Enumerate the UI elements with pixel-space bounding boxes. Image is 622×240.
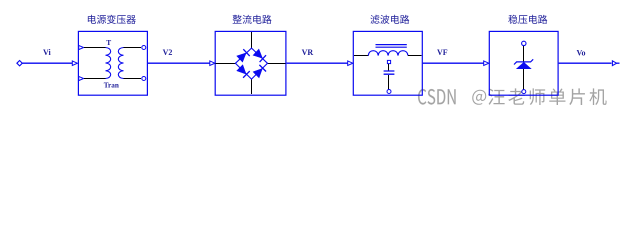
diode D1 top-left (236, 49, 249, 62)
watermark CSDN (418, 88, 607, 105)
pin arrow into transformer (72, 61, 77, 66)
transformer T box (78, 31, 147, 95)
zener bottom pin circle (522, 90, 526, 94)
transformer pin marker top-right (142, 46, 146, 50)
capacitor bottom lead (388, 75, 390, 90)
zener top lead (523, 46, 525, 62)
transformer pin stub top-left (84, 47, 106, 49)
inductor core line 2 (376, 46, 407, 48)
inductor stub left (354, 55, 369, 57)
node Vi input terminal (17, 61, 22, 66)
zener DZ anode triangle (517, 62, 531, 68)
svg-text:Vo: Vo (577, 49, 586, 58)
pin arrow into rectifier (210, 61, 215, 66)
regulator box (489, 31, 558, 95)
inductor core line 1 (376, 44, 407, 46)
diode D3 bottom-left (236, 64, 249, 77)
bridge stub left (216, 63, 236, 65)
zener DZ cathode bar (514, 59, 533, 64)
bridge stub right (267, 63, 285, 65)
title 稳压电路 (508, 15, 547, 24)
svg-text:VR: VR (302, 48, 314, 57)
svg-text:Vi: Vi (43, 48, 51, 57)
bridge stub bottom (251, 79, 253, 94)
capacitor pin square (387, 60, 390, 63)
transformer pin arrow bottom-left (79, 76, 84, 80)
wire VR (287, 62, 348, 64)
svg-text:VF: VF (437, 48, 448, 57)
output stub (616, 62, 620, 64)
wire V2 (148, 62, 210, 64)
inductor L coil (368, 51, 408, 56)
transformer pin stub top-right (124, 47, 142, 49)
pin arrow into filter (348, 61, 353, 66)
title 整流电路 (233, 15, 272, 24)
diode D2 top-right (253, 49, 266, 62)
wire VF (423, 62, 484, 64)
diode D4 bottom-right (253, 65, 266, 78)
svg-text:Tran: Tran (104, 82, 119, 90)
rectifier bridge box (215, 31, 286, 95)
transformer secondary winding (118, 48, 123, 79)
transformer pin stub bottom-right (124, 78, 142, 80)
capacitor bottom pin circle (387, 90, 391, 94)
zener top pin circle (522, 41, 526, 45)
svg-text:V2: V2 (163, 48, 173, 57)
title 电源变压器 (88, 15, 136, 24)
bridge diamond (235, 48, 267, 79)
zener bottom lead (523, 69, 525, 90)
node Vo output terminal (612, 61, 616, 66)
wire Vo (559, 62, 612, 64)
transformer pin marker bottom-right (142, 77, 146, 81)
capacitor C plates (384, 71, 395, 74)
bridge stub top (251, 32, 253, 48)
svg-text:T: T (106, 38, 111, 47)
pin arrow into regulator (484, 61, 489, 66)
transformer pin stub bottom-left (84, 78, 106, 80)
wire Vi to transformer (22, 62, 73, 64)
inductor stub right (408, 55, 422, 57)
capacitor top lead (388, 64, 390, 71)
transformer primary winding (106, 48, 111, 79)
title 滤波电路 (370, 15, 409, 24)
filter box (353, 31, 422, 95)
transformer pin arrow top-left (79, 45, 84, 49)
